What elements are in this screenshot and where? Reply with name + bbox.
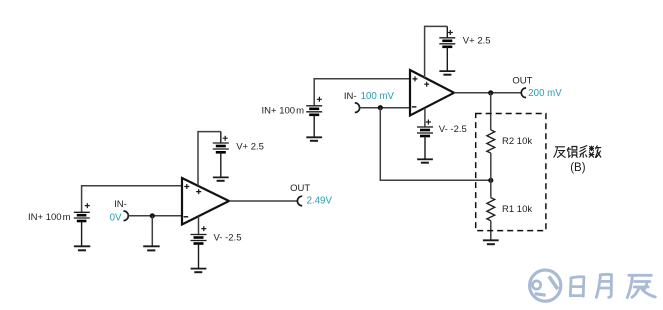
ground below battery V5 [439, 71, 455, 75]
wire feedback from IN- junction to divider midpoint [380, 108, 491, 181]
terminal OUT (right) [521, 88, 526, 98]
terminal IN- (left) [124, 211, 129, 221]
svg-text:V- -2.5: V- -2.5 [214, 233, 242, 244]
wire IN- terminal to U2 inverting input [360, 107, 410, 109]
wire IN- terminal to U1 inverting input [128, 215, 182, 217]
svg-text:IN-: IN- [344, 91, 357, 102]
svg-text:R2 10k: R2 10k [502, 136, 532, 147]
op-amp U1 [182, 178, 229, 225]
battery V4 IN+ 100m (right) [306, 97, 322, 138]
ground below battery V6 [417, 159, 433, 162]
terminal OUT (left) [297, 196, 302, 206]
svg-text:OUT: OUT [512, 75, 532, 86]
wire IN+ battery to op-amp U2 noninverting input [314, 79, 410, 106]
svg-text:100 mV: 100 mV [361, 91, 395, 102]
ground below battery V3 [191, 269, 207, 273]
battery V6 V- -2.5 (right) [417, 120, 433, 160]
wire U1 V+ pin to battery V2 [198, 132, 221, 186]
ground below R1 [483, 240, 499, 244]
ground below battery V2 [213, 177, 229, 180]
wire U2 V- pin to battery V6 [424, 108, 426, 127]
svg-text:IN-: IN- [114, 199, 127, 210]
wire U2 output to OUT terminal [454, 92, 521, 94]
svg-text:(B): (B) [570, 162, 586, 174]
ground below battery V1 [74, 246, 90, 250]
logo character 月 [596, 274, 611, 297]
node junction on IN- (right) [378, 105, 383, 110]
svg-text:2.49V: 2.49V [307, 196, 333, 207]
dashed feedback box [476, 114, 546, 231]
ground below battery V4 [306, 137, 322, 141]
terminal IN- (right) [355, 103, 360, 113]
battery V1 IN+ 100m (left) [74, 203, 90, 246]
battery V3 V- -2.5 (left) [191, 226, 207, 269]
svg-text:IN+ 100m: IN+ 100m [28, 212, 71, 223]
svg-text:200 mV: 200 mV [528, 88, 562, 99]
wire OUT node down to R2 [490, 93, 492, 130]
resistor R2 10k [487, 130, 495, 153]
resistor R1 10k [487, 198, 495, 221]
logo character 辰 [627, 275, 655, 297]
label 反馈系数 (feedback coefficient) [554, 146, 601, 158]
logo character 日 [570, 277, 584, 296]
svg-text:V+ 2.5: V+ 2.5 [463, 35, 491, 46]
svg-text:R1 10k: R1 10k [502, 204, 532, 215]
battery V5 V+ 2.5 (right) [439, 26, 455, 71]
wire U1 V- pin to battery V3 [198, 216, 200, 234]
node junction divider midpoint [488, 178, 493, 183]
node junction on IN- (left) [150, 213, 155, 218]
wire IN+ battery to op-amp U1 noninverting input [82, 186, 182, 213]
wire R1 to ground [490, 221, 492, 241]
battery V2 V+ 2.5 (left) [213, 132, 229, 178]
op-amp U2 [410, 70, 454, 116]
wire R2 to midpoint [490, 153, 492, 180]
svg-text:V+ 2.5: V+ 2.5 [236, 142, 264, 153]
wire junction down to ground [151, 216, 153, 247]
logo icon circle [530, 270, 561, 301]
node junction OUT [488, 90, 493, 95]
svg-text:0V: 0V [110, 212, 122, 223]
svg-text:OUT: OUT [290, 183, 310, 194]
wire U2 V+ pin to battery V5 [425, 26, 448, 77]
svg-text:IN+ 100m: IN+ 100m [262, 106, 305, 117]
wire U1 output to OUT terminal [229, 200, 297, 202]
ground below IN- junction (left) [143, 246, 160, 250]
svg-text:V- -2.5: V- -2.5 [439, 124, 467, 135]
wire midpoint to R1 [490, 180, 492, 197]
